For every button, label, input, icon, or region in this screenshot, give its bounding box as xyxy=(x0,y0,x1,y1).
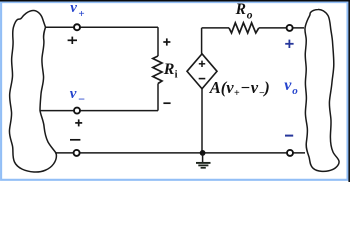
svg-text:v: v xyxy=(70,86,77,102)
right black border line xyxy=(348,0,350,182)
wire: Ri top lead xyxy=(157,27,159,56)
wire: dependent source top lead xyxy=(201,28,203,54)
svg-text:v: v xyxy=(70,0,77,16)
node v+ terminal circle xyxy=(74,24,80,30)
bottom-left terminal circle xyxy=(74,150,80,156)
svg-text:i: i xyxy=(175,70,178,81)
node v- terminal circle xyxy=(74,108,80,114)
resistor Ri xyxy=(153,56,162,84)
resistor Ro xyxy=(229,23,259,33)
label Ro xyxy=(235,1,253,21)
source network blob (left) xyxy=(9,10,56,172)
svg-text:): ) xyxy=(262,78,270,97)
polarity minus above bottom-left terminal xyxy=(70,139,80,141)
polarity minus at Ri bottom xyxy=(163,102,170,104)
svg-text:A(v: A(v xyxy=(209,78,235,97)
wire: top-right rail to Ro xyxy=(202,27,229,29)
wire: v- rail from source blob to Ri branch xyxy=(40,110,158,112)
svg-text:−: − xyxy=(241,78,250,97)
polarity plus below v+ node xyxy=(68,37,77,44)
dependent source U1 diamond xyxy=(187,54,217,89)
load network blob (right) xyxy=(305,9,339,171)
svg-text:o: o xyxy=(247,9,253,21)
label Ri xyxy=(163,61,178,81)
top black border line xyxy=(0,0,350,2)
wire: Ro to output terminal and load blob xyxy=(259,27,304,29)
junction dot at ground node xyxy=(200,150,206,156)
polarity plus below v- node xyxy=(75,119,82,126)
wire: top-left rail from source blob to Ri branch xyxy=(46,26,159,28)
wire: bottom ground rail xyxy=(55,152,305,154)
blue frame border xyxy=(1,2,347,180)
label A(v+ - v-) gain expression xyxy=(209,78,270,99)
label v- xyxy=(70,86,85,106)
plus inside dependent source xyxy=(199,61,205,67)
wire: Ri bottom lead xyxy=(157,84,159,111)
polarity minus above bottom-right terminal (blue) xyxy=(285,135,293,137)
svg-text:+: + xyxy=(78,8,84,20)
svg-text:R: R xyxy=(163,61,175,78)
polarity plus below vo terminal (blue) xyxy=(285,40,293,48)
polarity plus at Ri top xyxy=(163,38,170,45)
svg-text:o: o xyxy=(292,85,298,97)
wire: dependent source bottom lead xyxy=(201,89,203,153)
ground xyxy=(196,153,211,168)
svg-text:−: − xyxy=(78,92,85,106)
svg-text:+: + xyxy=(234,88,240,99)
svg-text:v: v xyxy=(284,77,292,94)
label vo xyxy=(284,77,298,97)
node vo output terminal circle xyxy=(287,25,293,31)
minus inside dependent source xyxy=(199,78,206,80)
svg-text:R: R xyxy=(235,1,246,18)
svg-text:v: v xyxy=(251,78,259,97)
bottom-right terminal circle xyxy=(287,150,293,156)
label v+ xyxy=(70,0,84,20)
